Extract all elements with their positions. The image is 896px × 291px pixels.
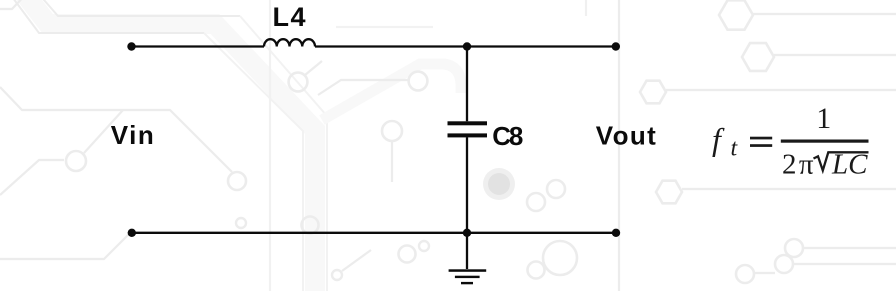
formula ft = 1/(2*pi*sqrt(LC))	[712, 102, 869, 181]
svg-text:t: t	[731, 136, 739, 162]
node junction bottom	[463, 229, 471, 237]
top-left stub trace	[0, 0, 28, 9]
soft gray blob	[483, 168, 515, 200]
formula radical	[814, 152, 869, 170]
big sweeping band fill	[20, 0, 315, 291]
wire bottom	[132, 232, 616, 234]
svg-text:LC: LC	[831, 149, 868, 181]
svg-text:f: f	[712, 121, 725, 157]
bottom-left trace	[0, 233, 130, 259]
band upper edge	[30, 0, 240, 16]
wire ground stem	[466, 233, 468, 269]
formula fraction bar	[781, 140, 869, 143]
wire top left segment	[132, 45, 265, 47]
right side traces	[719, 0, 753, 29]
formula equals sign	[750, 137, 772, 140]
node junction top	[463, 42, 471, 50]
svg-text:C8: C8	[492, 121, 523, 151]
inductor L4	[264, 39, 315, 46]
ground bars	[449, 269, 487, 272]
node Vout top terminal	[612, 42, 620, 50]
vertical trace x=619	[618, 0, 620, 291]
svg-text:Vout: Vout	[596, 121, 656, 151]
left trace to via	[0, 160, 64, 195]
center traces	[289, 73, 308, 92]
vertical trace x=270	[269, 0, 271, 291]
band lower edge	[10, 0, 204, 33]
branch band toward capacitor	[322, 64, 461, 120]
wire capacitor bottom lead	[466, 137, 468, 233]
capacitor C8 plates	[448, 121, 488, 125]
svg-text:1: 1	[816, 102, 831, 135]
node Vout bottom terminal	[612, 229, 620, 237]
wire capacitor top lead	[466, 47, 468, 122]
svg-text:L4: L4	[273, 2, 306, 32]
wire top right segment	[315, 45, 616, 47]
node Vin top terminal	[127, 42, 135, 50]
svg-text:Vin: Vin	[111, 120, 154, 150]
svg-text:2π: 2π	[782, 149, 814, 181]
node Vin bottom terminal	[128, 229, 136, 237]
